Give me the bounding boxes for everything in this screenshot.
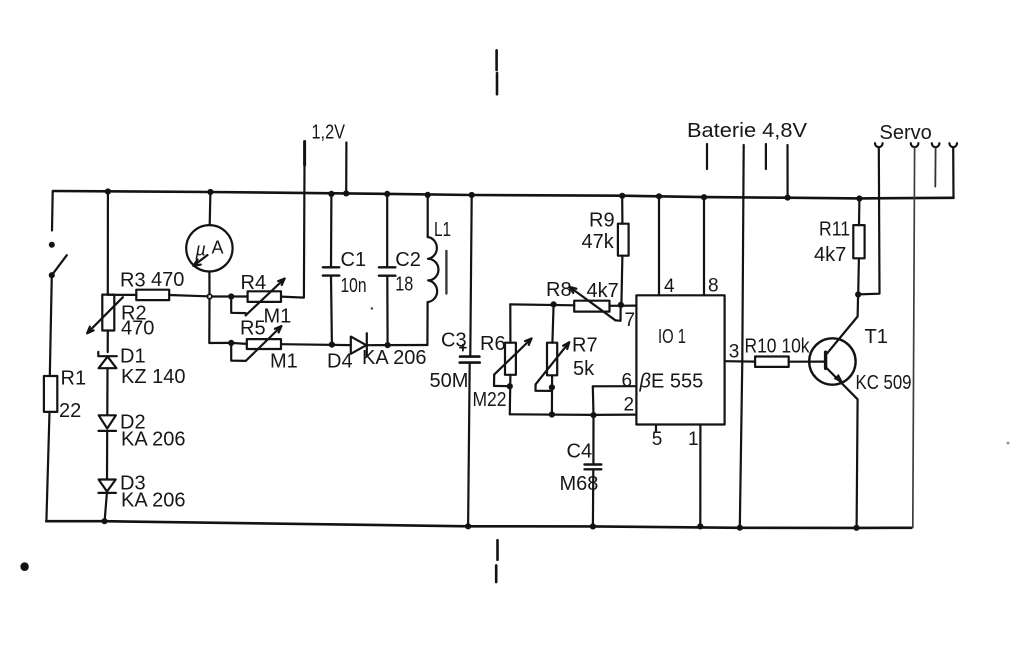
svg-text:µ: µ bbox=[195, 240, 206, 260]
svg-text:R7: R7 bbox=[572, 335, 598, 357]
svg-text:470: 470 bbox=[121, 318, 154, 340]
svg-text:R6: R6 bbox=[480, 333, 506, 355]
svg-text:4k7: 4k7 bbox=[814, 244, 846, 266]
svg-text:R1: R1 bbox=[61, 367, 87, 389]
svg-text:5k: 5k bbox=[573, 358, 595, 380]
svg-text:L1: L1 bbox=[434, 219, 451, 241]
svg-text:10n: 10n bbox=[341, 275, 367, 297]
svg-text:KA 206: KA 206 bbox=[121, 490, 186, 512]
svg-text:C3: C3 bbox=[441, 329, 467, 351]
svg-text:22: 22 bbox=[59, 400, 81, 422]
svg-text:R8: R8 bbox=[546, 279, 572, 301]
svg-text:KA 206: KA 206 bbox=[362, 347, 427, 369]
svg-text:6: 6 bbox=[622, 370, 633, 391]
svg-text:KC 509: KC 509 bbox=[856, 372, 912, 394]
svg-text:8: 8 bbox=[708, 276, 719, 297]
svg-text:1: 1 bbox=[688, 429, 699, 450]
svg-text:D4: D4 bbox=[327, 350, 353, 372]
svg-text:4: 4 bbox=[664, 276, 675, 297]
svg-text:R4: R4 bbox=[241, 272, 267, 294]
svg-text:7: 7 bbox=[625, 310, 636, 331]
svg-text:M68: M68 bbox=[560, 473, 599, 495]
svg-text:3: 3 bbox=[729, 342, 740, 363]
svg-text:Baterie 4,8V: Baterie 4,8V bbox=[687, 120, 808, 142]
svg-text:50M: 50M bbox=[430, 370, 469, 392]
svg-text:βE 555: βE 555 bbox=[639, 370, 704, 392]
svg-text:470: 470 bbox=[151, 269, 184, 291]
svg-text:R5: R5 bbox=[240, 318, 266, 340]
svg-text:KA 206: KA 206 bbox=[121, 429, 186, 451]
svg-text:C1: C1 bbox=[341, 249, 367, 271]
svg-text:4k7: 4k7 bbox=[587, 280, 619, 302]
svg-text:R10 10k: R10 10k bbox=[745, 336, 811, 358]
svg-text:2: 2 bbox=[624, 395, 635, 416]
svg-text:C2: C2 bbox=[395, 249, 421, 271]
svg-text:18: 18 bbox=[395, 274, 413, 296]
svg-text:47k: 47k bbox=[582, 231, 615, 253]
svg-text:5: 5 bbox=[652, 429, 663, 450]
svg-text:A: A bbox=[212, 238, 224, 258]
svg-text:KZ 140: KZ 140 bbox=[121, 366, 185, 388]
svg-text:D1: D1 bbox=[120, 346, 146, 368]
svg-text:M22: M22 bbox=[473, 389, 507, 411]
svg-text:R11: R11 bbox=[819, 218, 850, 240]
svg-text:M1: M1 bbox=[264, 306, 292, 328]
svg-text:R9: R9 bbox=[589, 209, 615, 231]
svg-text:1,2V: 1,2V bbox=[312, 122, 346, 144]
svg-text:C4: C4 bbox=[567, 441, 593, 463]
svg-text:IO 1: IO 1 bbox=[658, 326, 686, 348]
svg-text:Servo: Servo bbox=[880, 122, 932, 144]
svg-text:M1: M1 bbox=[270, 350, 298, 372]
svg-text:R3: R3 bbox=[120, 270, 146, 292]
svg-text:T1: T1 bbox=[865, 326, 888, 348]
